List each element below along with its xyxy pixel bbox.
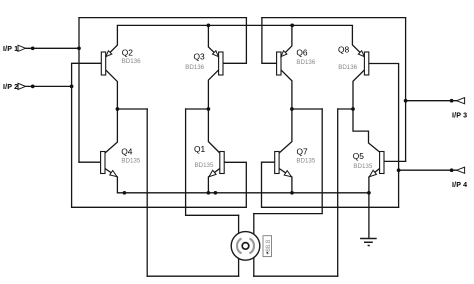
transistor Q1 BD135 NPN mirrored — [208, 109, 224, 193]
svg-text:Q2: Q2 — [122, 47, 134, 57]
wire I/P3 pin lead — [406, 100, 457, 102]
junction dot I/P4 pin — [450, 168, 454, 172]
svg-text:I/P 3: I/P 3 — [452, 111, 467, 119]
transistor Q7 BD135 NPN — [275, 109, 292, 193]
wire top rail left segment (net I/P1) — [79, 17, 246, 19]
transistor Q6 BD136 PNP — [277, 25, 292, 109]
wire Q5 base lead — [384, 160, 406, 162]
wire x=322.2 down to motor top-right stub — [254, 109, 322, 214]
wire node A stub to x=147.2 — [117, 108, 147, 110]
junction dot I/P1 pin — [31, 46, 35, 50]
junction dot Q6 emitter on rail — [290, 24, 294, 28]
wire Q8 base lead and riser x=398.6 down to lower bus right — [368, 64, 398, 208]
svg-text:Q8: Q8 — [338, 45, 350, 55]
svg-text:+88.8: +88.8 — [265, 239, 272, 255]
junction dot I/P2 pin — [31, 85, 35, 89]
svg-text:BD135: BD135 — [296, 158, 315, 165]
wire riser x=405.6 from Q5 base up to top rail right — [405, 18, 407, 162]
svg-text:I/P 4: I/P 4 — [452, 181, 467, 189]
wire motor left vertical x=238.6 — [238, 215, 240, 276]
wire H2 to V1 riser up to node B — [186, 109, 239, 215]
svg-text:Q4: Q4 — [121, 147, 133, 157]
wire node D stub — [338, 108, 353, 110]
junction dot I/P3 pin — [450, 99, 454, 103]
junction dot node D (Q8/Q5 collectors) — [351, 107, 355, 111]
input pin I/P 2 — [3, 83, 26, 91]
junction dot Q5 emitter / ground stem — [367, 191, 371, 195]
junction dot I/P4 riser — [397, 168, 401, 172]
transistor Q2 BD136 PNP — [101, 25, 117, 109]
wire drop from top rail to Q3 base — [223, 18, 247, 64]
wire x=337.7 riser up to node D — [337, 109, 339, 276]
wire PNP emitter rail y=25.4 — [117, 24, 352, 26]
wire I/P2 pin lead — [26, 85, 72, 87]
transistor Q3 BD136 PNP mirrored — [208, 25, 223, 109]
svg-text:BD135: BD135 — [121, 158, 140, 165]
wire node B stub — [186, 108, 209, 110]
svg-text:BD135: BD135 — [353, 163, 372, 170]
wire I/P1 riser x=79 up to top rail and down to Q4 base — [78, 18, 80, 163]
junction dot node C (Q6/Q7 collectors) — [290, 107, 294, 111]
svg-text:BD136: BD136 — [122, 58, 141, 65]
wire Q2 base lead and riser x=71.6 down to lower bus — [72, 63, 102, 207]
wire lower bus left (net I/P2) to Q1 base — [72, 162, 247, 207]
input pin I/P 1 — [3, 45, 26, 53]
junction dot I/P1 riser — [77, 46, 81, 50]
ground — [360, 239, 377, 246]
svg-text:BD136: BD136 — [296, 59, 315, 66]
motor rpm display +88.8 — [263, 236, 272, 257]
wire Q4 base lead — [79, 161, 101, 163]
wire NPN emitter rail y=192.8 — [117, 192, 369, 194]
motor M1 (DC motor symbol) — [231, 232, 260, 261]
wire lower bus right (net I/P4) to Q7 base — [262, 162, 399, 207]
svg-text:Q3: Q3 — [194, 51, 206, 61]
transistor Q5 BD135 NPN mirrored — [353, 109, 384, 239]
wire I/P4 pin lead — [399, 169, 457, 171]
input pin I/P 3 — [452, 98, 467, 120]
svg-text:I/P 1: I/P 1 — [3, 45, 18, 53]
svg-text:Q7: Q7 — [297, 147, 309, 157]
transistor Q8 BD136 PNP mirrored — [352, 25, 368, 109]
svg-text:BD136: BD136 — [338, 64, 357, 71]
wire drop from top rail to Q6 base — [262, 18, 277, 64]
input pin I/P 4 — [452, 167, 467, 189]
junction dot Q1 emitter — [207, 191, 211, 195]
junction dot node B (Q3/Q1 collectors) — [207, 107, 211, 111]
wire node C stub to x=322.2 — [292, 108, 322, 110]
svg-text:Q6: Q6 — [296, 48, 308, 58]
wire motor right vertical x=253.8 — [253, 214, 255, 277]
transistor Q4 BD135 NPN — [101, 109, 118, 193]
svg-text:BD136: BD136 — [185, 64, 204, 71]
wire top rail right segment (net I/P3) — [262, 17, 406, 19]
wire bottom rail left segment — [147, 275, 238, 277]
junction dot node A (Q2/Q4 collectors) — [116, 107, 120, 111]
junction dot I/P3 riser — [404, 99, 408, 103]
junction dot Q3 emitter on rail — [207, 24, 211, 28]
svg-text:Q1: Q1 — [194, 144, 206, 154]
svg-text:Q5: Q5 — [353, 151, 365, 161]
svg-text:I/P 2: I/P 2 — [3, 83, 18, 91]
wire I/P1 pin lead — [26, 47, 80, 49]
junction dot emitter rail near Q4 — [123, 191, 127, 195]
wire bottom rail right segment — [254, 275, 338, 277]
wire x=147.2 down to bottom rail — [146, 109, 148, 276]
junction dot emitter rail near Q1 — [214, 191, 218, 195]
junction dot I/P2 riser — [70, 85, 74, 89]
svg-text:BD135: BD135 — [195, 162, 214, 169]
junction dot Q7 emitter — [290, 191, 294, 195]
